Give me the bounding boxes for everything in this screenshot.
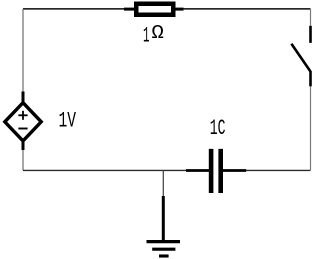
svg-text:1V: 1V xyxy=(59,109,77,134)
svg-text:1C: 1C xyxy=(210,116,226,141)
svg-text:1: 1 xyxy=(143,24,150,49)
svg-text:Ω: Ω xyxy=(152,22,165,44)
